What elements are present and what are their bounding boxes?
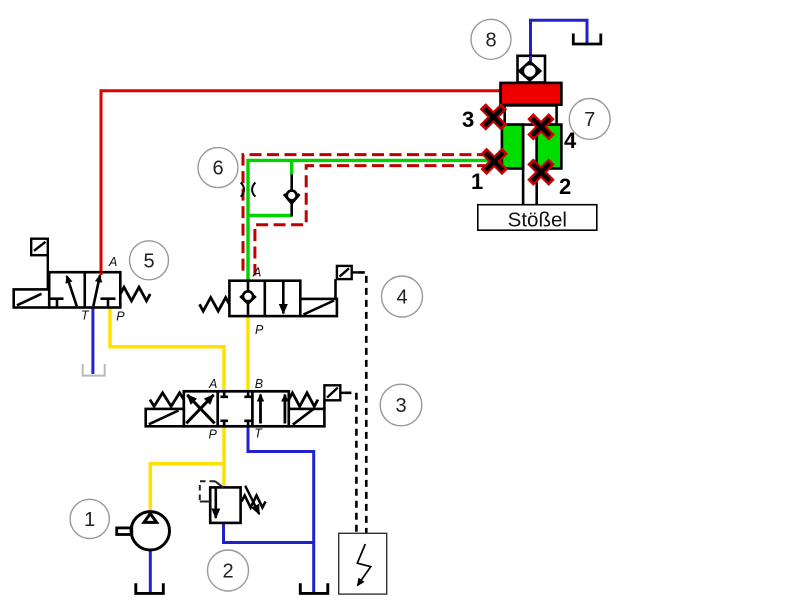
cylinder rod lines: [523, 125, 537, 205]
svg-text:5: 5: [143, 250, 154, 272]
cylinder piston white band: [505, 105, 557, 124]
item circle 7: [569, 99, 610, 140]
relief valve spring: [242, 496, 266, 508]
svg-text:A: A: [108, 255, 117, 269]
valve V6 throttle arcs: [241, 183, 244, 197]
wire red dashed: pilot upper from cylinder port 1 to valve 4 A: [243, 155, 489, 276]
item circle 8: [471, 19, 511, 59]
item circle 6: [198, 148, 238, 188]
main valve solenoid: [324, 385, 340, 400]
tank symbol bottom right: [300, 583, 328, 593]
svg-text:2: 2: [559, 174, 571, 199]
valve V6 check valve branch: [284, 175, 299, 217]
wire black dashed: main valve solenoid to electric box: [340, 392, 344, 394]
cylinder red cap: [501, 83, 562, 105]
valve V5 body: [49, 272, 120, 307]
item circle 1: [70, 499, 109, 538]
svg-text:6: 6: [212, 158, 223, 180]
main valve crossed arrows position: [186, 395, 213, 423]
main valve parallel arrows position: [259, 395, 262, 424]
crossed port marker 1: [487, 154, 502, 169]
svg-text:A: A: [208, 377, 217, 391]
main valve left pilot box: [146, 409, 184, 426]
crossed port marker 2: [533, 164, 548, 179]
svg-text:1: 1: [471, 169, 483, 194]
wire green: cylinder port 1 to valve 6 to valve 4 A: [248, 160, 490, 280]
wire red stub into valve V5: [100, 272, 103, 275]
svg-text:8: 8: [485, 29, 496, 51]
valve V4 solenoid: [337, 266, 352, 279]
svg-text:2: 2: [222, 561, 233, 583]
valve V5 left position arrow: [67, 276, 77, 306]
valve V5 return spring: [120, 287, 150, 301]
wire yellow: valve5 P to main valve A: [110, 308, 224, 392]
svg-text:3: 3: [395, 395, 406, 417]
svg-text:P: P: [255, 323, 264, 337]
relief valve V2: [210, 487, 240, 523]
item circle 2: [208, 550, 249, 591]
svg-text:P: P: [209, 427, 218, 441]
wire blue: pump to left tank: [149, 550, 152, 592]
wire yellow: valve4 P to main valve B: [246, 316, 250, 391]
main valve right pilot box: [289, 400, 325, 426]
relief valve pilot dashes: [200, 481, 215, 501]
wire green: valve 6 lower parallel branch: [248, 160, 292, 215]
tank symbol top right 8: [573, 34, 601, 45]
wire red dashed: pilot lower loop from cylinder port 1: [255, 166, 489, 276]
tank symbol bottom left: [136, 583, 164, 593]
svg-text:A: A: [252, 266, 261, 280]
svg-text:P: P: [116, 310, 125, 324]
svg-text:Stößel: Stößel: [508, 209, 567, 232]
Stoessel box: [478, 205, 597, 231]
valve V5 left blocked port: [51, 299, 64, 307]
wire black dashed: valve4 solenoid to electric box: [352, 271, 358, 273]
valve V5 pilot box: [14, 289, 50, 307]
item circle 5: [130, 241, 169, 280]
wire blue: valve5 T to grey tank: [91, 308, 94, 375]
valve V5 solenoid: [31, 239, 48, 290]
item circle 4: [382, 276, 423, 317]
wire blue: main valve T to right tank: [248, 426, 314, 592]
electric control box E3: [339, 533, 387, 594]
pump P1: [117, 512, 170, 550]
relief valve adjust arrow: [245, 486, 259, 515]
main valve blocked center position: [220, 391, 228, 426]
crossed port marker 4: [533, 119, 548, 134]
main valve right spring: [289, 393, 318, 407]
svg-text:3: 3: [462, 107, 474, 132]
main valve left spring: [150, 393, 184, 407]
valve V5 right blocked port: [101, 299, 116, 307]
valve V4 pilot box: [300, 279, 337, 316]
main valve V3 body: [184, 391, 289, 426]
wire blue: cylinder check valve to tank 8: [531, 20, 588, 56]
wire blue: relief valve out to tank line: [224, 523, 314, 543]
valve V4 check valve position: [240, 281, 255, 316]
wire yellow: pump to main valve P and relief valve: [150, 426, 224, 511]
wire red: valve5 A to cylinder cap: [101, 91, 501, 273]
item circle 3: [380, 384, 422, 426]
relief valve internal arrow: [215, 487, 218, 518]
valve V4 flow arrow position: [282, 281, 285, 314]
svg-text:4: 4: [396, 287, 407, 309]
crossed port marker 3: [486, 109, 501, 124]
valve V5 right position arrow: [93, 275, 100, 306]
cylinder green chamber left: [502, 125, 523, 169]
svg-text:1: 1: [84, 509, 95, 531]
tank symbol under valve V5: [83, 364, 105, 376]
lightning bolt: [357, 544, 370, 586]
valve V4 spring: [200, 298, 230, 312]
svg-text:B: B: [255, 377, 263, 391]
svg-text:7: 7: [584, 109, 595, 131]
valve V4 body: [229, 281, 300, 316]
cylinder green chamber right: [537, 125, 562, 169]
cylinder check valve box: [518, 56, 546, 83]
